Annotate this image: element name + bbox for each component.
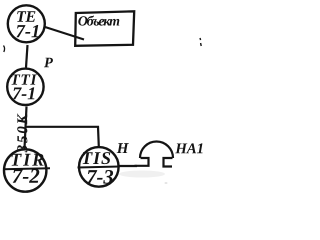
stray mark dots right [200,38,201,46]
faint scan smudge [119,171,165,178]
label TIS [83,152,111,164]
label 7-1 [16,25,38,37]
wire TE to object box [44,27,85,40]
label 7-2 [13,169,40,183]
wire TTI to TIR [25,107,27,149]
label 7-1 [13,87,34,99]
wire branch junction to TIS [25,127,99,147]
horn HA1 [135,142,174,167]
object box [75,11,134,46]
TIR chord line [4,168,51,169]
transmitter TTI 7-1 [7,69,43,105]
TIS chord line [78,167,120,168]
label H [117,143,129,153]
wire TE to TTI [26,45,28,68]
switch TIS 7-3 [79,147,119,187]
label 7-3 [87,170,113,184]
label HA1 [175,143,202,153]
label 350K vertical [17,114,27,153]
recorder TIR 7-2 [4,149,46,191]
label TE [17,11,35,21]
sensor TE 7-1 [8,5,45,42]
label Объект [78,15,119,25]
label TTI [11,74,36,84]
wire TIS to horn HA1 [119,165,137,167]
label P [44,58,53,67]
stray mark parenthesis [4,46,5,53]
label TIR [12,154,44,166]
